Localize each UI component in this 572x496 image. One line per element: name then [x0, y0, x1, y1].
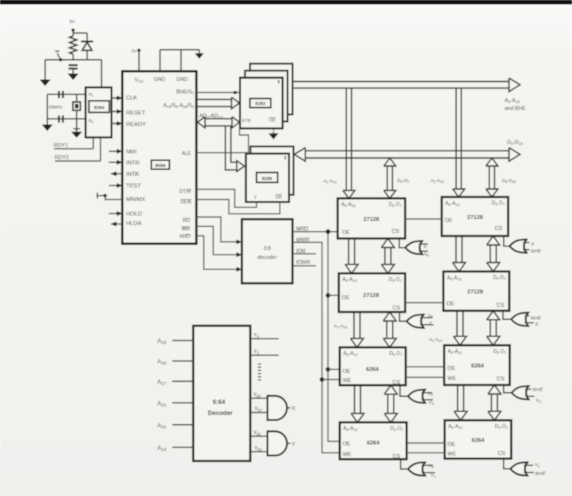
svg-text:A1-A13: A1-A13: [429, 337, 442, 343]
svg-text:D8-D15: D8-D15: [502, 178, 516, 184]
svg-text:X: X: [292, 406, 296, 412]
svg-text:STB: STB: [242, 118, 251, 123]
svg-text:A0-A12: A0-A12: [448, 424, 462, 430]
svg-text:BHE/S7: BHE/S7: [176, 90, 194, 96]
svg-text:VCC: VCC: [135, 77, 144, 83]
svg-text:A1-A14: A1-A14: [431, 178, 444, 184]
svg-text:X2: X2: [88, 118, 93, 124]
svg-text:A0-A19: A0-A19: [505, 98, 520, 104]
svg-text:Y61: Y61: [254, 407, 262, 413]
svg-text:CS: CS: [497, 303, 505, 309]
svg-text:IOWR: IOWR: [296, 260, 310, 266]
svg-text:D0-D7: D0-D7: [493, 275, 506, 281]
svg-text:A15: A15: [157, 422, 167, 429]
svg-text:A19/S6-A16/S3: A19/S6-A16/S3: [163, 103, 194, 109]
svg-text:A0-A12: A0-A12: [343, 426, 357, 432]
svg-text:HLDA: HLDA: [126, 221, 142, 227]
svg-text:WR: WR: [182, 227, 191, 233]
svg-text:6264: 6264: [367, 440, 380, 446]
svg-text:A0-A13: A0-A13: [447, 275, 461, 281]
svg-text:A0-A13: A0-A13: [341, 202, 355, 208]
svg-text:Z: Z: [429, 321, 432, 327]
svg-text:WE: WE: [343, 452, 352, 458]
svg-text:WE: WE: [448, 376, 457, 382]
svg-text:Y62: Y62: [253, 430, 261, 436]
svg-text:OE: OE: [448, 366, 456, 372]
svg-text:6264: 6264: [472, 438, 485, 444]
svg-text:D0-D7: D0-D7: [390, 426, 403, 432]
svg-text:D0-D7: D0-D7: [389, 202, 402, 208]
svg-text:A18: A18: [157, 359, 167, 366]
svg-text:OE: OE: [343, 369, 351, 375]
svg-text:D0-D7: D0-D7: [389, 351, 402, 357]
svg-text:A0-A13: A0-A13: [445, 201, 459, 207]
svg-text:Y1: Y1: [431, 473, 436, 479]
svg-text:A0-A12: A0-A12: [448, 349, 462, 355]
svg-text:X1: X1: [88, 92, 93, 98]
svg-text:RESET: RESET: [126, 111, 146, 117]
svg-text:CS: CS: [392, 229, 400, 235]
svg-text:8282: 8282: [255, 101, 266, 106]
svg-text:RDY1: RDY1: [54, 143, 68, 149]
svg-text:GND: GND: [176, 77, 188, 83]
svg-text:RD: RD: [183, 218, 191, 224]
svg-text:A0-A13: A0-A13: [342, 277, 356, 283]
svg-text:A0: A0: [429, 463, 434, 469]
svg-text:A0: A0: [428, 391, 433, 397]
svg-text:Y1: Y1: [535, 462, 540, 468]
svg-text:TEST: TEST: [126, 184, 141, 190]
svg-text:Y0: Y0: [429, 400, 434, 406]
svg-text:INTA: INTA: [126, 172, 139, 178]
svg-text:CS: CS: [393, 380, 401, 386]
svg-text:D0-D7: D0-D7: [495, 424, 508, 430]
svg-text:A19: A19: [157, 338, 167, 345]
svg-text:A1-A14: A1-A14: [323, 178, 336, 184]
svg-text:DT/R: DT/R: [179, 189, 191, 195]
svg-text:D0-D15: D0-D15: [507, 140, 523, 146]
svg-text:Decoder: Decoder: [208, 410, 233, 417]
svg-text:A14: A14: [157, 445, 167, 452]
svg-text:T: T: [254, 195, 257, 200]
svg-text:GND: GND: [154, 77, 166, 83]
svg-text:OE: OE: [445, 218, 453, 224]
svg-text:OE: OE: [448, 442, 456, 448]
svg-text:OE: OE: [275, 194, 282, 199]
svg-text:ALE: ALE: [182, 151, 192, 157]
svg-text:3:8: 3:8: [263, 246, 271, 252]
svg-text:CS: CS: [497, 377, 505, 383]
svg-text:D0-D7: D0-D7: [492, 201, 505, 207]
svg-text:CS: CS: [393, 454, 401, 460]
svg-text:A16: A16: [157, 401, 167, 408]
svg-text:and BHE: and BHE: [505, 106, 527, 112]
svg-text:Y0: Y0: [536, 398, 541, 404]
svg-text:27128: 27128: [363, 293, 379, 299]
svg-text:Y: Y: [292, 442, 296, 448]
svg-text:6264: 6264: [471, 364, 484, 370]
svg-text:RDY2: RDY2: [55, 155, 69, 161]
svg-text:BHE: BHE: [535, 471, 546, 477]
svg-text:Y63: Y63: [254, 446, 262, 452]
svg-text:OE: OE: [343, 441, 351, 447]
svg-text:Y60: Y60: [253, 392, 261, 398]
svg-text:5V: 5V: [132, 48, 137, 53]
svg-text:HOLD: HOLD: [126, 212, 142, 218]
svg-text:8286: 8286: [262, 176, 273, 181]
svg-text:CS: CS: [495, 226, 503, 232]
svg-text:OE: OE: [342, 230, 350, 236]
svg-text:A17: A17: [157, 379, 167, 386]
svg-text:CS: CS: [498, 451, 506, 457]
svg-text:D0-D7: D0-D7: [493, 349, 506, 355]
svg-text:A0-A12: A0-A12: [343, 351, 357, 357]
svg-text:BHE: BHE: [531, 315, 542, 321]
svg-text:BHE: BHE: [533, 387, 544, 393]
svg-text:BHE: BHE: [531, 249, 542, 255]
svg-text:decoder: decoder: [257, 255, 277, 261]
svg-text:6264: 6264: [366, 367, 379, 373]
svg-text:33MHz: 33MHz: [49, 104, 63, 109]
svg-text:MN/MX: MN/MX: [126, 197, 145, 203]
svg-text:Z: Z: [535, 321, 538, 327]
svg-text:WE: WE: [448, 452, 457, 458]
svg-text:27128: 27128: [467, 215, 483, 221]
svg-text:27128: 27128: [467, 290, 483, 296]
svg-text:A1-A13: A1-A13: [334, 324, 347, 330]
svg-text:6:64: 6:64: [213, 399, 226, 406]
svg-text:8086: 8086: [155, 163, 166, 168]
svg-text:WE: WE: [343, 378, 352, 384]
svg-text:CLK: CLK: [126, 96, 137, 102]
svg-text:OE: OE: [342, 295, 350, 301]
svg-text:DEN: DEN: [181, 199, 192, 205]
svg-text:5V: 5V: [69, 19, 76, 24]
svg-text:OE: OE: [447, 301, 455, 307]
svg-text:A0: A0: [428, 313, 433, 319]
svg-text:D0-D7: D0-D7: [389, 277, 402, 283]
svg-text:CS: CS: [393, 306, 401, 312]
svg-text:27128: 27128: [363, 217, 379, 223]
svg-text:D0-D7: D0-D7: [397, 178, 409, 184]
svg-text:READY: READY: [126, 122, 146, 128]
svg-text:INTR: INTR: [126, 160, 140, 166]
svg-text:8284: 8284: [94, 105, 105, 110]
svg-text:OE: OE: [269, 117, 276, 122]
svg-text:M/IO: M/IO: [180, 234, 191, 240]
svg-text:NMI: NMI: [126, 149, 137, 155]
svg-text:A0: A0: [424, 252, 429, 258]
